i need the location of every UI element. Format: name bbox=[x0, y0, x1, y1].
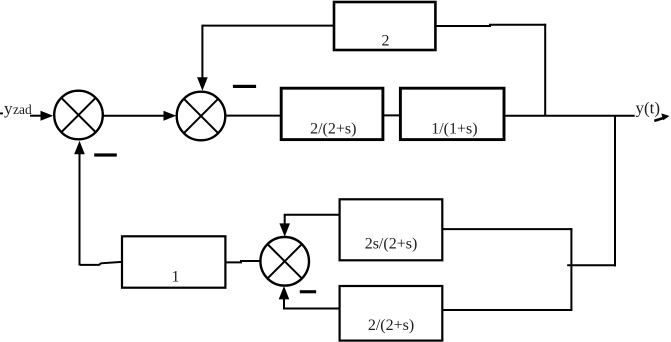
svg-text:2s/(2+s): 2s/(2+s) bbox=[365, 236, 418, 253]
block H1 2s/(2+s) bbox=[340, 199, 443, 260]
wire S3 to block F 1 bbox=[225, 261, 260, 262]
svg-text:y(t): y(t) bbox=[636, 99, 661, 118]
input label yzad bbox=[0, 99, 32, 118]
svg-text:1/(1+s): 1/(1+s) bbox=[431, 121, 477, 138]
wire H1 output to S3 top with arrow bbox=[279, 215, 339, 237]
block F 1 bbox=[122, 236, 225, 287]
wire main tap down right side bbox=[567, 116, 616, 267]
svg-text:2/(2+s): 2/(2+s) bbox=[368, 317, 414, 334]
wire G2 to output bbox=[504, 115, 635, 117]
svg-text:2/(2+s): 2/(2+s) bbox=[310, 121, 356, 138]
minus sign at S2 upper input bbox=[233, 85, 256, 88]
block H2 2/(2+s) bbox=[340, 286, 443, 341]
svg-text:2: 2 bbox=[382, 33, 390, 50]
block G1 2/(2+s) bbox=[281, 88, 383, 139]
wire input arrow into S1 bbox=[30, 111, 53, 121]
wire H2 output to S3 bottom with arrow bbox=[279, 286, 340, 309]
summing junction S3 bbox=[260, 237, 309, 286]
svg-text:y: y bbox=[4, 99, 13, 118]
wire vertical distribution to H1 and H2 inputs bbox=[570, 228, 572, 311]
minus sign at S1 lower input bbox=[94, 153, 117, 156]
block H 2 bbox=[334, 2, 435, 50]
wire S2 to block G1 bbox=[226, 115, 282, 117]
summing junction S1 bbox=[54, 91, 103, 140]
block G2 1/(1+s) bbox=[400, 88, 504, 139]
wire tap up to feedback block H 2 bbox=[435, 24, 546, 116]
minus sign at S3 lower input bbox=[300, 290, 316, 293]
summing junction S2 bbox=[177, 92, 226, 141]
wire into H1 right side bbox=[443, 228, 573, 230]
wire into H2 right side bbox=[443, 309, 572, 311]
wire G1 to G2 bbox=[383, 114, 401, 116]
output arrow tick bbox=[661, 113, 669, 120]
wire F to S1 bottom with arrow bbox=[74, 141, 122, 266]
wire H to S2 top with arrow bbox=[197, 26, 334, 91]
wire S1 to S2 with arrow bbox=[104, 111, 177, 121]
svg-text:zad: zad bbox=[13, 102, 32, 117]
svg-text:1: 1 bbox=[172, 269, 180, 286]
